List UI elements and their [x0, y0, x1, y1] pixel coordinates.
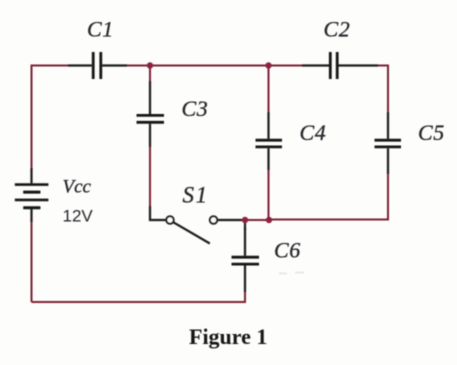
- capacitor C1: [68, 52, 127, 79]
- label C2: [324, 17, 351, 42]
- label Vcc: [63, 177, 92, 198]
- svg-text:C2: C2: [324, 17, 351, 42]
- wire node D to node C: [243, 219, 269, 221]
- wire top-right corner down to C5: [378, 66, 388, 113]
- wire left vertical from top-left corner to battery: [31, 65, 33, 169]
- switch S1: [150, 206, 243, 244]
- wire C3 bottom down to switch: [149, 147, 151, 207]
- wire from C1 to node A: [127, 65, 150, 67]
- label 12V: [63, 207, 94, 226]
- capacitor C6: [232, 228, 260, 292]
- label C3: [182, 96, 209, 121]
- svg-text:C6: C6: [274, 238, 301, 263]
- wire C4 bottom to node C: [268, 170, 270, 220]
- svg-text:Figure 1: Figure 1: [189, 324, 267, 349]
- wire node A to node B: [150, 65, 269, 67]
- node B junction dot: [265, 62, 271, 68]
- svg-text:S1: S1: [183, 183, 209, 208]
- label C4: [300, 120, 327, 145]
- node A junction dot: [147, 62, 153, 68]
- label S1: [183, 183, 209, 208]
- capacitor C4: [256, 112, 283, 170]
- capacitor C3: [137, 81, 165, 147]
- wire C5 bottom to node C: [269, 174, 388, 220]
- svg-text:12V: 12V: [63, 207, 94, 226]
- capacitor C5: [375, 112, 402, 174]
- wire node B to C2: [269, 65, 303, 67]
- svg-text:C1: C1: [87, 17, 114, 42]
- svg-text:C5: C5: [418, 120, 445, 145]
- caption Figure 1: [189, 324, 267, 349]
- wire battery bottom to bottom bus: [31, 222, 33, 302]
- label C6: [274, 238, 301, 263]
- node D junction dot: [242, 217, 248, 223]
- battery Vcc: [15, 168, 49, 222]
- wire node B down to C4: [268, 66, 270, 113]
- wire top-left horizontal segment: [31, 65, 69, 67]
- node C junction dot: [266, 217, 272, 223]
- wire node D down to C6: [244, 222, 246, 230]
- artifact smudge under C6 label: [279, 273, 304, 274]
- wire C6 bottom corner to bottom bus: [32, 292, 246, 302]
- wire node A down to C3: [149, 66, 151, 82]
- svg-text:C3: C3: [182, 96, 209, 121]
- svg-text:Vcc: Vcc: [63, 177, 92, 198]
- svg-text:C4: C4: [300, 120, 327, 145]
- label C1: [87, 17, 114, 42]
- capacitor C2: [302, 52, 378, 79]
- label C5: [418, 120, 445, 145]
